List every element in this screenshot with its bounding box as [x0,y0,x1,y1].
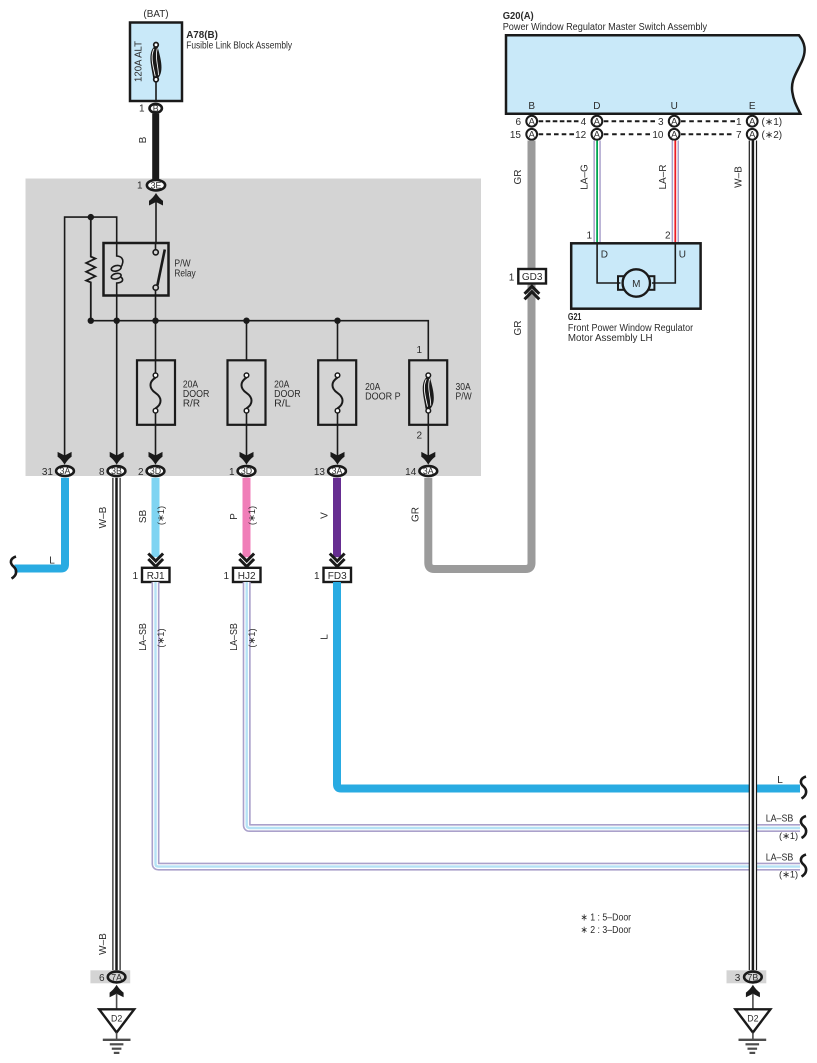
svg-text:E: E [749,101,756,112]
fusible link block A78(B) box [130,23,182,102]
svg-text:A: A [529,130,536,140]
svg-text:P/W: P/W [456,392,473,403]
wire bus to fuse3 [337,321,339,361]
svg-text:A: A [749,117,756,127]
node bus junction at fuse 3 [334,318,340,324]
svg-text:2: 2 [416,431,422,442]
wire to ground left [116,994,118,1010]
connector 1 RJ1 [142,568,170,582]
svg-text:U: U [671,101,678,112]
svg-text:13: 13 [314,467,326,478]
connector 13 3A [328,466,346,476]
svg-text:1: 1 [223,571,229,582]
motor M circle [623,269,650,296]
arrow into 31 3A [58,452,72,465]
arrow into 7A [110,985,124,998]
svg-text:3B: 3B [111,466,122,476]
curl end of LA-SB 2 [801,855,806,877]
svg-text:R/L: R/L [274,399,291,410]
svg-text:A78(B): A78(B) [186,30,218,41]
curl end of LA-SB 1 [801,816,806,838]
svg-text:A: A [529,117,536,127]
svg-text:1: 1 [586,231,592,242]
svg-text:3: 3 [658,117,664,128]
ground triangle D2 right [735,1009,770,1032]
wire LA-SB from RJ1 [156,582,801,867]
svg-text:120A ALT: 120A ALT [134,41,145,82]
chevrons above FD3 [330,554,345,567]
connector 1 3D [238,466,256,476]
curl end of L wire right [801,777,806,799]
connector 8 3B [108,466,126,476]
svg-text:G20(A): G20(A) [503,11,534,22]
svg-text:∗ 1 : 5–Door: ∗ 1 : 5–Door [581,912,632,923]
svg-text:GR: GR [513,321,524,336]
svg-text:1: 1 [314,571,320,582]
svg-text:8: 8 [99,467,105,478]
wire P from 1 3D [243,478,251,558]
svg-text:31: 31 [42,467,54,478]
relay P/W box [104,243,169,296]
svg-text:R/R: R/R [183,399,200,410]
connector 2 3D [147,466,165,476]
svg-text:15: 15 [510,130,522,141]
dashed links row 2 [539,133,732,135]
svg-text:2: 2 [138,467,144,478]
wire L (cyan) from FD3 [337,582,800,789]
svg-text:1: 1 [736,117,742,128]
wire bus to fuse1 [155,321,157,361]
wire coil to 3B [116,296,118,457]
svg-text:1: 1 [139,104,145,115]
master switch box G20(A) [506,35,805,113]
chevrons above RJ1 [148,554,163,567]
svg-text:U: U [679,250,686,261]
wire bus under relay [91,321,429,361]
svg-text:HJ2: HJ2 [238,571,256,582]
svg-text:L: L [777,775,783,786]
arrow into 3E [149,193,163,206]
svg-text:(BAT): (BAT) [143,9,168,20]
node bus junction at fuse 1 [152,318,158,324]
svg-text:RJ1: RJ1 [147,571,165,582]
connector 6 7A [108,972,126,983]
svg-text:LA–SB: LA–SB [229,623,240,651]
dashed links row 1 [539,120,735,122]
svg-text:4: 4 [581,117,587,128]
connector 6 7A gray backing [90,970,130,983]
svg-text:A: A [594,130,601,140]
svg-text:DOOR P: DOOR P [365,392,401,403]
svg-text:L: L [320,634,331,640]
svg-text:FD3: FD3 [328,571,347,582]
svg-text:P: P [229,513,240,520]
svg-text:W–B: W–B [98,506,109,528]
arrow into 7B [746,985,760,998]
svg-text:LA–G: LA–G [580,164,591,190]
wire from 3E to relay switch [155,202,157,243]
svg-text:(∗1): (∗1) [247,506,257,525]
svg-text:(∗1): (∗1) [247,628,257,647]
svg-text:W–B: W–B [734,166,745,188]
svg-text:(∗1): (∗1) [156,628,166,647]
svg-text:(∗1): (∗1) [156,506,166,525]
wire to ground right [752,994,754,1010]
wire LA-R from pin U10 to motor [672,141,679,244]
svg-text:LA–SB: LA–SB [138,623,149,651]
svg-text:G21: G21 [568,312,582,323]
connector 1 3E [147,180,165,190]
svg-text:1: 1 [416,345,422,356]
ground symbol left [103,1040,131,1053]
arrow into 1 3D [240,452,254,465]
svg-text:D2: D2 [111,1014,122,1024]
connector 1 HJ2 [233,568,261,582]
svg-text:M: M [632,279,640,290]
relay switch [155,243,157,250]
connector 3 7B [744,972,762,983]
svg-text:3D: 3D [150,466,161,476]
svg-text:D: D [601,250,608,261]
svg-text:1: 1 [137,180,143,191]
svg-text:7A: 7A [111,972,122,982]
svg-text:LA–R: LA–R [658,164,669,189]
svg-text:GR: GR [411,507,422,522]
wire top line left of relay [65,217,117,456]
arrow into 14 3A [421,452,435,465]
svg-text:A: A [671,130,678,140]
resistor (relay coil shunt) [86,217,95,321]
svg-text:GD3: GD3 [522,272,543,283]
wire W-B from pin E7 [749,141,757,971]
svg-text:SB: SB [138,510,149,524]
wire V from 13 3A [333,478,341,558]
svg-text:∗ 2 : 3–Door: ∗ 2 : 3–Door [581,925,632,936]
svg-text:LA–SB: LA–SB [766,852,794,863]
svg-text:Relay: Relay [174,269,195,280]
node resistor top junction [88,214,94,220]
wire LA-G from pin D12 to motor [593,141,600,244]
node bus junction at fuse 2 [243,318,249,324]
svg-text:12: 12 [575,130,587,141]
svg-text:Power Window Regulator Master: Power Window Regulator Master Switch Ass… [503,22,707,33]
wire GR from 14 3A [428,297,531,570]
svg-text:GR: GR [513,170,524,185]
svg-text:10: 10 [652,130,664,141]
connector pins row 1: 6A 4A 3A 1A (*1) [515,116,782,128]
motor brushes [618,276,624,290]
arrow into 8 3B [110,452,124,465]
svg-text:3A: 3A [423,466,434,476]
fuse 20A DOOR P [318,360,356,456]
svg-text:A: A [594,117,601,127]
svg-text:1: 1 [132,571,138,582]
svg-text:B: B [528,101,535,112]
relay coil [117,243,123,267]
connector 14 3A [419,466,437,476]
svg-text:D: D [593,101,600,112]
relay/fuse block gray background [26,179,482,477]
svg-text:(∗2): (∗2) [762,130,783,141]
connector 31 3A [56,466,74,476]
connector 1 FD3 [324,568,352,582]
svg-text:7: 7 [736,130,742,141]
svg-text:A: A [749,130,756,140]
ground triangle D2 left [99,1009,134,1032]
svg-text:2: 2 [665,231,671,242]
arrow into 13 3A [331,452,345,465]
svg-text:B: B [153,104,159,114]
node bus junction at coil [114,318,120,324]
chevrons below GD3 [525,286,540,299]
wire W-B from 8 3B [112,478,120,971]
svg-text:3E: 3E [151,180,162,190]
svg-text:3A: 3A [60,466,71,476]
svg-text:1: 1 [229,467,235,478]
connector pins row 2: 15A 12A 10A 7A (*2) [510,129,782,141]
svg-text:3: 3 [735,973,741,984]
chevrons above HJ2 [239,554,254,567]
svg-text:14: 14 [405,467,417,478]
svg-text:Fusible Link Block Assembly: Fusible Link Block Assembly [186,40,292,51]
wire LA-SB from HJ2 [247,582,800,828]
svg-text:(∗1): (∗1) [762,117,783,128]
svg-text:V: V [320,512,331,519]
motor box G21 [571,243,700,308]
svg-text:A: A [671,117,678,127]
svg-text:3D: 3D [241,466,252,476]
connector 1 GD3 [518,269,546,284]
svg-text:(∗1): (∗1) [779,870,798,880]
wire GR from pin B15 to GD3 [528,141,536,301]
svg-text:7B: 7B [748,972,759,982]
svg-text:6: 6 [99,973,105,984]
svg-text:Motor Assembly LH: Motor Assembly LH [568,333,653,344]
arrow into 2 3D [149,452,163,465]
ground symbol right [739,1040,767,1053]
node bus junction at resistor [88,318,94,324]
wire L (cyan) from 31 3A [15,478,66,569]
svg-text:W–B: W–B [98,933,109,955]
motor internal wires [597,243,675,283]
curl end of L wire [11,557,16,579]
connector 3 7B gray backing [727,970,767,983]
fuse 20A DOOR R/L [228,360,266,456]
fuse 30A P/W (fusible link) [409,360,447,456]
svg-text:3A: 3A [332,466,343,476]
svg-text:B: B [138,136,149,143]
svg-text:LA–SB: LA–SB [766,814,794,825]
svg-text:6: 6 [515,117,521,128]
connector 1 B [150,104,162,113]
svg-text:D2: D2 [747,1014,758,1024]
wire bus to fuse2 [246,321,248,361]
fuse 20A DOOR R/R [137,360,175,456]
svg-text:L: L [49,556,55,567]
svg-text:(∗1): (∗1) [779,831,798,841]
fusible link element 120A ALT [150,43,161,102]
wire B (thick black) [152,114,159,180]
wire SB from 2 3D [152,478,160,558]
svg-text:1: 1 [509,273,515,284]
